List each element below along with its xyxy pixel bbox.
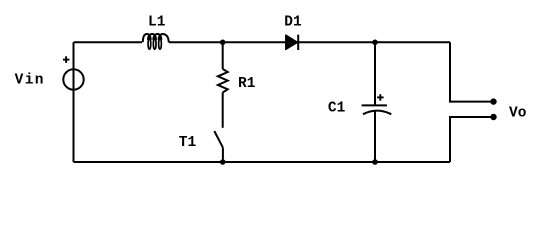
node junction dot capacitor branch top	[372, 40, 378, 46]
switch T1 blade	[214, 131, 223, 148]
svg-text:Vin: Vin	[15, 73, 44, 89]
wire bottom rail	[74, 161, 451, 163]
wire capacitor branch upper	[374, 42, 376, 104]
capacitor C1	[362, 105, 392, 114]
svg-text:R1: R1	[238, 76, 256, 92]
wire left vertical	[73, 42, 75, 162]
output terminal dot positive	[490, 98, 496, 104]
wire switch bottom stub	[222, 148, 224, 162]
svg-text:C1: C1	[328, 101, 346, 117]
wire middle branch upper	[222, 42, 224, 69]
voltage source Vin	[63, 69, 83, 89]
wire middle branch lower (to switch)	[222, 93, 224, 128]
wire right vertical lower	[450, 117, 494, 162]
wire capacitor branch lower	[374, 112, 376, 163]
inductor L1	[143, 34, 169, 49]
node junction dot capacitor branch bottom	[372, 159, 378, 165]
wire top rail middle segment	[169, 41, 286, 43]
wire top rail left segment	[74, 41, 143, 43]
svg-text:L1: L1	[148, 14, 166, 30]
resistor R1	[218, 69, 228, 93]
node junction dot middle branch bottom	[220, 159, 226, 165]
svg-text:T1: T1	[179, 135, 197, 151]
svg-text:Vo: Vo	[509, 106, 527, 122]
wire top rail right segment	[298, 41, 450, 43]
diode D1	[286, 35, 298, 50]
output terminal dot negative	[490, 114, 496, 120]
plus polarity mark of Vin	[63, 56, 70, 63]
wire right vertical upper	[450, 42, 494, 101]
node junction dot middle branch top	[220, 40, 226, 46]
plus polarity mark of C1	[377, 94, 384, 101]
svg-text:D1: D1	[284, 14, 302, 30]
